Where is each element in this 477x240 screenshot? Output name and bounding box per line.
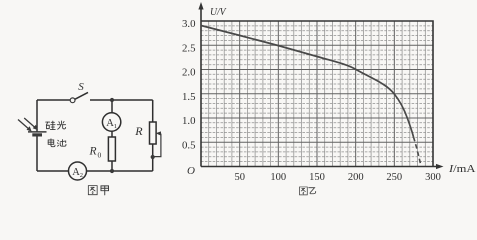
svg-text:50: 50 [234, 172, 245, 183]
graph grid major lines [201, 21, 433, 167]
ammeter A2 [69, 162, 87, 180]
svg-text:2.0: 2.0 [182, 67, 196, 79]
svg-text:2.5: 2.5 [182, 42, 196, 54]
svg-text:R: R [89, 146, 97, 158]
wire right branch [152, 100, 154, 171]
svg-text:300: 300 [425, 172, 441, 183]
svg-text:3.0: 3.0 [182, 18, 196, 30]
x tick labels [234, 172, 440, 183]
ammeter A1 [102, 113, 120, 131]
svg-text:R: R [134, 124, 143, 138]
svg-text:150: 150 [309, 172, 325, 183]
graph grid minor lines [201, 21, 433, 167]
wire bottom [37, 170, 153, 172]
wire left branch [36, 100, 38, 171]
resistor R0 [108, 137, 115, 161]
curve U-I solid part [201, 26, 414, 138]
svg-text:1.5: 1.5 [182, 91, 196, 103]
svg-text:200: 200 [348, 172, 364, 183]
svg-text:250: 250 [386, 172, 402, 183]
light arrow 2 [24, 118, 38, 130]
svg-text:100: 100 [270, 172, 286, 183]
y tick labels [182, 18, 196, 151]
svg-text:0.5: 0.5 [182, 139, 196, 151]
label 图乙 [300, 187, 316, 195]
light arrow 1 [18, 120, 32, 132]
svg-text:2: 2 [80, 172, 83, 179]
wire middle branch A1-R0 [111, 100, 113, 171]
node junction right (wiper tie) [151, 155, 155, 159]
graph border (top and right) [201, 21, 433, 167]
svg-text:0: 0 [98, 151, 102, 160]
node junction bottom (R0 branch) [110, 169, 114, 173]
resistor R (rheostat) [150, 122, 157, 144]
photocell B (silicon solar cell) [28, 132, 47, 135]
svg-text:I/mA: I/mA [448, 163, 476, 175]
node junction top [110, 98, 114, 102]
label 电池 [48, 139, 66, 147]
switch S [70, 92, 88, 102]
label 硅光 [46, 121, 66, 130]
svg-text:U/V: U/V [210, 6, 227, 18]
x-axis with arrow [201, 164, 444, 169]
svg-text:1.0: 1.0 [182, 115, 196, 127]
rheostat wiper arrow and wire [153, 131, 161, 156]
label 图甲 [88, 186, 108, 195]
curve U-I dashed tail [414, 137, 422, 166]
label R0 [89, 146, 102, 160]
y-axis with arrow [198, 2, 203, 167]
svg-text:1: 1 [114, 123, 117, 130]
svg-text:O: O [187, 165, 195, 177]
svg-text:S: S [78, 81, 84, 93]
wire top [37, 99, 153, 101]
